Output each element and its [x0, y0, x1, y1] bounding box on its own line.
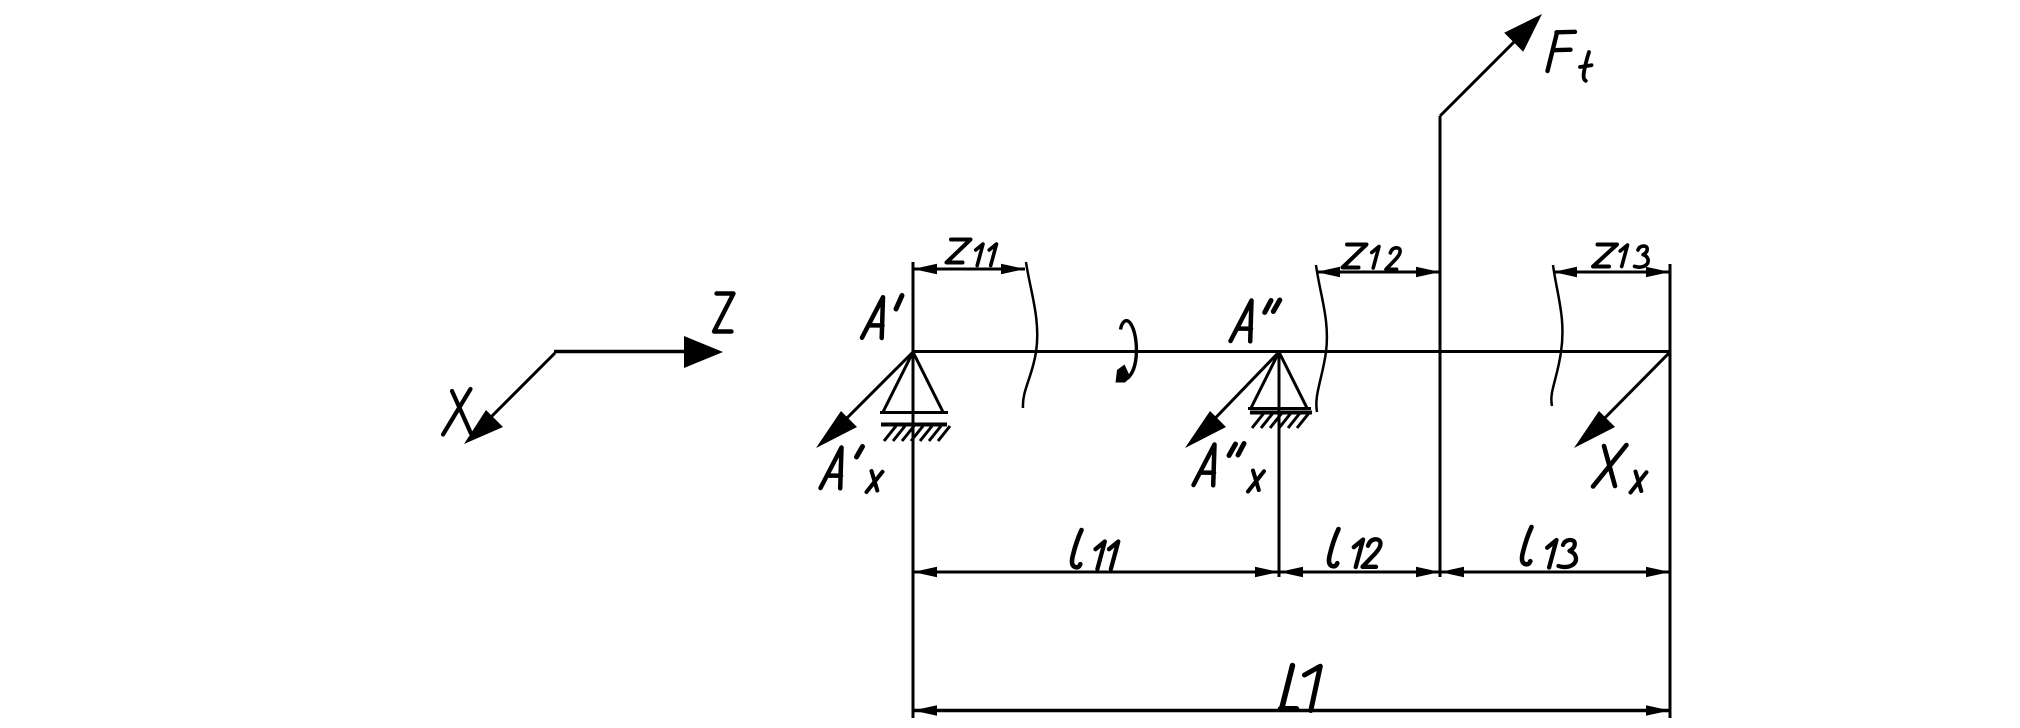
label Z axis [714, 294, 734, 332]
dimension l12 [1279, 567, 1440, 577]
reaction arrow A'x [816, 352, 913, 448]
support A' ground hatching [881, 425, 950, 442]
axis X wire [464, 353, 555, 444]
support A'' triangle [1248, 352, 1311, 409]
support A'' ground hatching [1250, 413, 1312, 429]
label L1 [1281, 666, 1297, 709]
torque rotation arrow on beam [1116, 321, 1137, 383]
break line for z13 [1551, 265, 1562, 406]
label l11 [1072, 530, 1082, 567]
label A'x [821, 448, 842, 489]
label A' [862, 297, 883, 338]
force Ft action line [1439, 116, 1442, 577]
label X axis [443, 389, 471, 435]
reaction arrow Xx at free end [1574, 352, 1670, 448]
right end extension line [1669, 264, 1672, 718]
label z11 [947, 240, 971, 263]
dimension l11 [913, 567, 1279, 577]
dimension z13 [1553, 267, 1670, 277]
support A'' center/extension line [1278, 352, 1281, 577]
dimension z12 [1316, 267, 1440, 277]
dimension z11 [913, 264, 1025, 274]
label A'' [1231, 301, 1252, 342]
label z13 [1593, 245, 1617, 267]
label Ft [1548, 32, 1576, 71]
label l13 [1522, 527, 1532, 564]
dimension L1 overall [913, 705, 1670, 715]
break line for z12 [1316, 265, 1327, 412]
label Xx [1593, 445, 1627, 487]
support A' triangle [880, 352, 948, 413]
label z12 [1343, 245, 1367, 268]
support A' center/extension line [912, 262, 915, 718]
break line for z11 [1023, 262, 1037, 408]
axis Z wire [554, 336, 723, 368]
dimension l13 [1440, 567, 1670, 577]
label A''x [1194, 445, 1215, 486]
force Ft arrow [1440, 14, 1542, 116]
label l12 [1329, 529, 1339, 566]
reaction arrow A''x [1185, 352, 1279, 448]
beam shaft line [913, 350, 1670, 353]
